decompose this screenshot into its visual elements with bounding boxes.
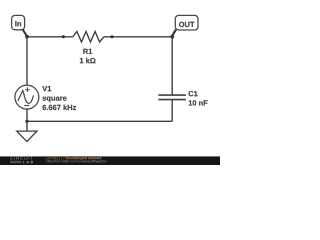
node dot left of resistor bbox=[62, 35, 65, 38]
V1 minus sign bbox=[24, 105, 29, 107]
label R1 bbox=[83, 49, 92, 54]
In tag stub wire bbox=[23, 29, 27, 36]
voltage source V1 bbox=[15, 85, 39, 109]
watermark logo lines bbox=[10, 160, 21, 162]
watermark bar bbox=[0, 156, 220, 165]
label C1 bbox=[189, 91, 198, 96]
watermark logo CIRCUIT bbox=[10, 157, 33, 160]
ground bbox=[17, 131, 37, 142]
label V1 bbox=[42, 86, 51, 91]
wire bottom horizontal from V1 to C1 bbox=[27, 120, 172, 122]
port tag OUT bbox=[175, 15, 198, 30]
capacitor C1 bottom plate bbox=[158, 99, 186, 101]
wire V1 bottom lead bbox=[26, 109, 28, 121]
resistor R1 bbox=[73, 32, 104, 43]
node dot right of resistor bbox=[110, 35, 113, 38]
port tag In bbox=[12, 15, 25, 29]
value square bbox=[43, 97, 67, 103]
wire right vertical from corner to C1 bbox=[171, 37, 173, 95]
wire top horizontal from In node to resistor bbox=[27, 36, 73, 38]
wire from resistor to corner bbox=[104, 36, 172, 38]
value 6.667 kHz bbox=[43, 105, 77, 111]
OUT tag stub wire bbox=[172, 30, 176, 36]
watermark text line 1 user bbox=[46, 157, 64, 160]
watermark text line 1 title bbox=[65, 157, 101, 160]
wire ground stub bbox=[26, 121, 28, 131]
watermark logo LAB bbox=[23, 161, 33, 163]
node junction below In bbox=[25, 35, 29, 39]
value 1 kOhm bbox=[80, 58, 96, 63]
value 10 nF bbox=[189, 100, 208, 105]
capacitor C1 top plate bbox=[158, 94, 186, 96]
watermark text line 2 url bbox=[47, 160, 107, 163]
node corner junction at OUT bbox=[170, 35, 174, 39]
node junction bottom left bbox=[25, 120, 28, 123]
V1 waveform glyph bbox=[18, 90, 34, 103]
V1 plus sign bbox=[25, 87, 30, 92]
wire C1 bottom lead bbox=[171, 100, 173, 122]
wire left vertical from In node to V1 bbox=[26, 37, 28, 85]
